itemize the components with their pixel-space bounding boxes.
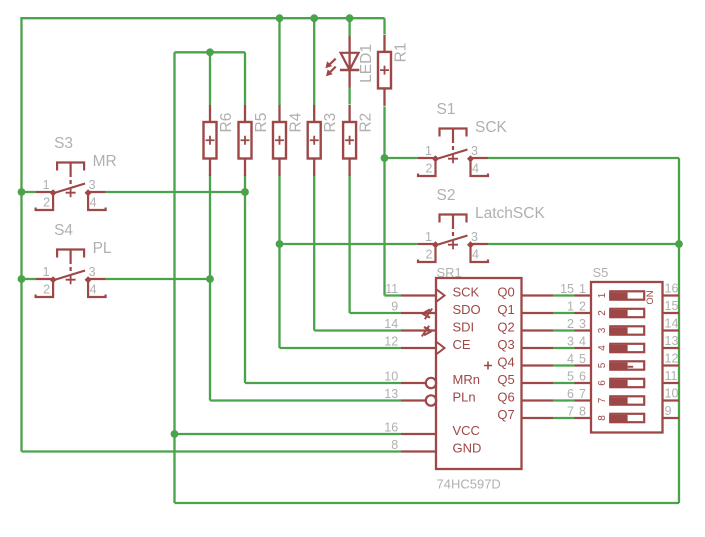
svg-text:13: 13 [665,334,679,348]
wire net Q2 [553,329,575,331]
pin Q1 stub [522,312,554,314]
resistor R4 [273,105,305,176]
svg-text:16: 16 [384,421,398,435]
svg-text:11: 11 [665,369,678,383]
pin MRn stub [401,378,436,388]
svg-text:7: 7 [567,405,574,419]
junction R4 S2 [276,240,284,248]
svg-text:PL: PL [93,240,112,257]
svg-text:R1: R1 [393,43,410,63]
wire R1 bottom to SCK [385,107,402,296]
svg-text:Q6: Q6 [497,390,514,405]
svg-text:3: 3 [579,317,586,331]
svg-text:SR1: SR1 [437,265,462,280]
wire R2 bottom to SDO [350,175,401,313]
svg-text:3: 3 [471,144,478,158]
svg-text:LatchSCK: LatchSCK [475,205,545,222]
svg-text:16: 16 [665,282,679,296]
resistor R2 [343,105,375,176]
svg-text:4: 4 [472,162,479,176]
wire net Q7 [553,417,575,419]
junction R4 top rail [276,14,284,22]
wire net Q6 [553,399,575,401]
svg-text:PLn: PLn [453,390,476,405]
svg-text:Q0: Q0 [497,285,514,300]
pin Q5 stub [522,382,554,384]
junction LED1 top rail [346,14,354,22]
svg-text:R4: R4 [288,112,305,132]
svg-text:SCK: SCK [475,119,508,136]
svg-text:S3: S3 [54,135,73,152]
IC plus symbol [484,362,492,370]
svg-text:8: 8 [579,405,586,419]
resistor R5 [239,105,271,176]
svg-text:4: 4 [472,248,479,262]
wire net Q0 [553,294,575,296]
svg-text:CE: CE [453,337,471,352]
junction S2 right vertical [675,240,683,248]
arrow SDI [422,326,432,337]
svg-text:10: 10 [384,370,398,384]
svg-text:2: 2 [579,300,586,314]
label SR1 [437,265,462,280]
wire R5 bottom to MRn [245,175,401,383]
svg-text:2: 2 [567,317,574,331]
svg-text:SCK: SCK [453,285,480,300]
svg-text:3: 3 [567,335,574,349]
svg-text:4: 4 [597,345,608,351]
svg-text:14: 14 [665,317,679,331]
arrow SDO [423,309,433,320]
junction S3 out R5 [241,188,249,196]
switch S2 LatchSCK [418,187,545,262]
svg-text:15: 15 [560,282,574,296]
svg-text:1: 1 [425,230,432,244]
wire net Q1 [553,312,575,314]
resistor R3 [308,105,340,176]
junction S4 out R6 [206,275,214,283]
svg-text:S5: S5 [593,265,609,280]
pin VCC stub [401,433,436,435]
svg-text:MR: MR [93,153,117,170]
svg-text:2: 2 [43,283,50,297]
wire top GND rail [20,17,384,19]
wire S2 pin1 from R4 column [280,243,419,245]
wire net Q5 [553,382,575,384]
op-amp U1 IC body SR1 74HC597D [436,278,522,469]
wire R6 top lead [209,52,211,105]
svg-text:R5: R5 [253,113,270,133]
wire S4 out to R6 column [106,278,210,280]
junction VCC vertical [171,430,179,438]
resistor R1 [378,35,410,106]
svg-text:7: 7 [597,397,608,403]
wire S1 pin1 [385,157,419,159]
DIP switch S5 right pin numbers [665,282,679,419]
junction R1 S1 [381,154,389,162]
wire net Q3 [553,347,575,349]
pin Q2 stub [522,329,554,331]
wire R4 top lead [278,18,280,105]
wire VCC vertical x=174 [173,52,175,503]
svg-text:2: 2 [597,310,608,316]
wire R6 bottom to PLn [210,175,401,401]
wire R3 top lead [313,18,315,105]
svg-text:15: 15 [665,299,679,313]
label S5 [593,265,609,280]
pin SDI stub [401,329,436,331]
svg-text:6: 6 [597,380,608,386]
pin SCK stub [401,294,436,296]
svg-text:3: 3 [89,178,96,192]
wire S3 out to R5 column [106,191,245,193]
junction left border S3 [18,188,26,196]
svg-text:8: 8 [391,438,398,452]
pin Q6 stub [522,399,554,401]
pin CE stub [401,347,436,349]
svg-text:1: 1 [43,178,50,192]
wire LED1 top lead [348,18,350,35]
pin PLn stub [401,395,436,405]
IC right pin names [497,285,514,423]
wire S4 pin1 [22,278,36,280]
svg-text:4: 4 [579,335,586,349]
svg-text:2: 2 [426,162,433,176]
svg-text:74HC597D: 74HC597D [437,477,501,492]
svg-text:Q5: Q5 [497,372,514,387]
pin Q3 stub [522,347,554,349]
IC left pin names [453,285,482,456]
svg-text:2: 2 [43,196,50,210]
svg-text:10: 10 [665,387,679,401]
svg-text:11: 11 [385,282,398,296]
svg-text:6: 6 [567,387,574,401]
svg-text:S4: S4 [54,222,73,239]
svg-text:12: 12 [665,352,679,366]
pin Q7 stub [522,417,554,419]
svg-text:9: 9 [665,404,672,418]
switch S1 SCK [418,101,508,176]
svg-text:1: 1 [43,265,50,279]
svg-text:5: 5 [567,370,574,384]
svg-text:1: 1 [567,300,574,314]
wire S1 out to right vertical [488,157,679,159]
junction R6 rail [206,48,214,56]
wire GND to IC pin 8 [22,450,402,452]
switch S3 MR [36,135,117,210]
pin GND stub [401,450,436,452]
junction R3 top rail [310,14,318,22]
clock wedge SCK [436,289,445,302]
svg-text:Q7: Q7 [497,407,514,422]
wire LED1 to R2 [348,88,350,105]
wire R4 bottom to CE [280,175,402,348]
svg-text:SDO: SDO [453,302,481,317]
switch S4 PL [36,222,112,297]
LED LED1 [325,35,375,87]
DIP switch S5 sliders [597,291,644,422]
svg-text:R2: R2 [358,113,375,133]
clock wedge CE [436,342,445,355]
resistor R6 [204,105,236,176]
svg-text:1: 1 [579,282,586,296]
svg-text:4: 4 [90,283,97,297]
svg-text:Q4: Q4 [497,355,514,370]
wire bottom [175,502,680,504]
wire left border vertical [20,18,22,451]
svg-text:1: 1 [425,144,432,158]
svg-text:9: 9 [391,300,398,314]
wire right vertical [678,158,680,503]
wire VCC to IC pin 16 [175,433,402,435]
svg-text:7: 7 [579,387,586,401]
svg-text:12: 12 [384,335,398,349]
wire R5 top lead [244,52,246,105]
svg-text:4: 4 [567,352,574,366]
svg-text:4: 4 [90,196,97,210]
svg-text:3: 3 [597,327,608,333]
DIP switch S5 body [591,282,663,433]
label ON [645,290,656,304]
svg-text:5: 5 [579,352,586,366]
svg-text:3: 3 [471,230,478,244]
svg-text:1: 1 [597,292,608,298]
svg-text:Q3: Q3 [497,337,514,352]
svg-text:8: 8 [597,415,608,421]
wire R1 top lead [383,18,385,34]
svg-text:14: 14 [384,317,398,331]
pin Q4 stub [522,364,554,366]
svg-text:S2: S2 [437,187,456,204]
svg-text:MRn: MRn [453,372,480,387]
net pin numbers Q0-Q7 [560,282,586,419]
svg-text:3: 3 [89,265,96,279]
wire rail R6 R5 tops [175,51,246,53]
IC left pin numbers [384,282,398,452]
svg-text:LED1: LED1 [358,44,375,83]
svg-text:VCC: VCC [453,423,480,438]
wire S3 pin1 [22,191,36,193]
wire S2 out to right vertical [488,243,679,245]
svg-text:R3: R3 [322,113,339,133]
junction left border S4 [18,275,26,283]
DIP switch S5 pin stubs [575,296,680,419]
pin Q0 stub [522,294,554,296]
svg-text:5: 5 [597,362,608,368]
svg-text:R6: R6 [218,113,235,133]
svg-text:S1: S1 [437,101,456,118]
wire net Q4 [553,364,575,366]
svg-text:Q2: Q2 [497,320,514,335]
svg-text:2: 2 [426,248,433,262]
wire R3 bottom to SDI [314,175,401,331]
svg-text:13: 13 [384,387,398,401]
svg-text:SDI: SDI [453,320,475,335]
svg-text:6: 6 [579,370,586,384]
svg-text:Q1: Q1 [497,302,514,317]
svg-text:ON: ON [645,290,656,304]
pin SDO stub [401,312,436,314]
svg-text:GND: GND [453,441,482,456]
label 74HC597D [437,477,501,492]
